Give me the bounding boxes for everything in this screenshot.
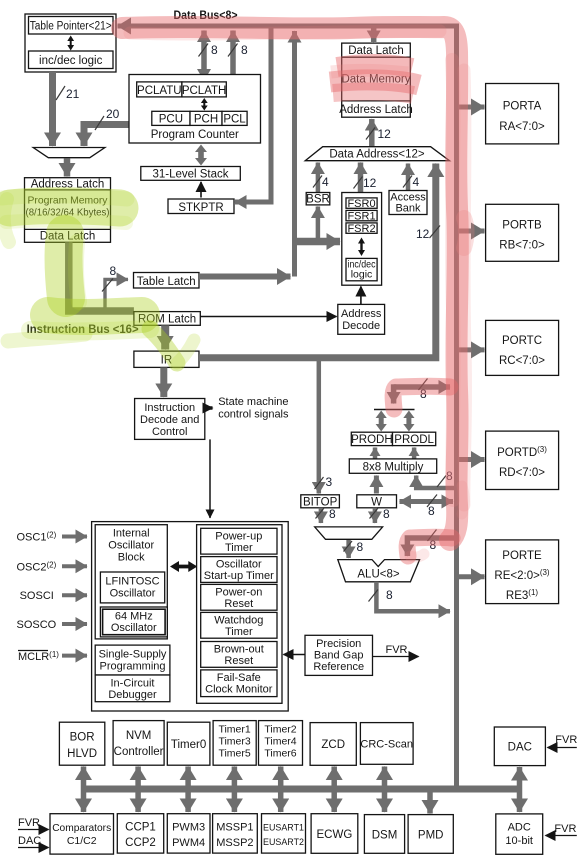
svg-text:8: 8 [383,507,390,521]
svg-text:12: 12 [378,127,392,141]
wire ROM latch to Address Decode [200,316,336,318]
svg-text:8: 8 [386,588,393,602]
svg-text:Start-up Timer: Start-up Timer [204,570,274,582]
svg-text:Oscillator: Oscillator [108,540,154,552]
svg-text:PCH: PCH [194,114,218,126]
svg-text:FSR0: FSR0 [347,198,375,210]
block EUSART1 EUSART2 [262,814,306,853]
svg-text:8: 8 [211,43,218,57]
block PORTA [486,84,559,144]
svg-text:Comparators: Comparators [52,822,111,834]
wire osc column to reset column double [170,561,197,572]
svg-text:PWM4: PWM4 [172,837,205,849]
svg-text:Decode: Decode [342,320,380,332]
wire NVM column double arrow [135,767,141,813]
svg-text:Control: Control [152,426,187,438]
highlight pink bus-to-ALU arm [407,537,452,556]
svg-text:BSR: BSR [306,194,330,206]
svg-text:SOSCI: SOSCI [20,590,54,602]
wire FSR to data address (12) [358,163,364,193]
wire multiply to PRODL [412,448,417,459]
svg-text:Timer0: Timer0 [171,739,206,751]
wire peripheral bus horizontal [84,786,520,793]
svg-text:EUSART2: EUSART2 [263,837,304,848]
svg-text:PCL: PCL [223,114,246,126]
wire ALU output to bus (8) [376,582,450,611]
value 8 slash right [228,44,238,57]
svg-text:Single-Supply: Single-Supply [99,649,167,661]
svg-text:Timer6: Timer6 [264,748,296,760]
wire 21 from table pointer to mux [49,72,56,146]
svg-text:Timer1: Timer1 [218,724,250,736]
svg-text:Instruction: Instruction [144,402,195,414]
svg-text:3: 3 [326,475,333,489]
wire Timer135 column double arrow [232,767,238,813]
highlight green program memory [10,206,120,208]
block Precision Band Gap Reference [305,635,373,675]
block PORTD [486,431,559,489]
svg-text:Oscillator: Oscillator [216,559,262,571]
block 31-Level Stack [141,167,241,181]
wire PRODL updown [403,411,414,432]
wire table ptr internal updown [67,36,74,51]
svg-text:CCP2: CCP2 [125,837,156,849]
svg-text:20: 20 [106,107,120,121]
svg-text:8: 8 [357,540,364,554]
block CRC-Scan [360,723,413,765]
wire data address to address latch (12) [369,119,375,147]
wire IDC down to oscillator block [209,439,211,518]
block Watchdog Timer [201,612,277,638]
wire table latch output to vertical bus [199,274,291,280]
block DAC [494,727,545,766]
block PMD [408,815,453,854]
wire pclath-pch updown [201,98,208,111]
block Brown-out Reset [201,642,277,668]
mux (address select) [33,148,105,158]
highlight pink data memory [330,64,419,95]
block LFINTOSC Oscillator [100,572,164,603]
svg-text:logic: logic [351,269,373,281]
svg-text:CRC-Scan: CRC-Scan [360,739,413,751]
svg-text:Program Counter: Program Counter [151,129,239,141]
svg-text:FVR: FVR [18,817,40,829]
svg-text:Oscillator: Oscillator [111,622,157,634]
wire multiply to PRODH [373,448,378,459]
svg-text:Block: Block [118,552,145,564]
block PORTC [486,320,559,375]
block Power-on Reset [201,584,277,610]
wire mux to address latch [64,159,71,177]
svg-text:Precision: Precision [316,638,361,650]
svg-text:Programming: Programming [99,661,165,673]
register BSR [306,193,330,205]
svg-text:8: 8 [329,507,336,521]
wire BITOP to mux (8) [319,508,324,523]
wire 20 from program counter to mux [84,125,129,147]
wire data bus horizontal + right vertical bus [118,26,457,789]
svg-text:FSR2: FSR2 [347,223,375,235]
svg-text:PORTA: PORTA [503,101,542,113]
svg-text:PCLATU: PCLATU [137,85,182,97]
svg-text:PRODL: PRODL [394,434,434,446]
svg-text:Table Pointer<21>: Table Pointer<21> [30,21,112,33]
svg-text:8x8 Multiply: 8x8 Multiply [363,461,424,473]
wire IR output to data address mux [199,164,436,358]
svg-text:MSSP1: MSSP1 [216,822,253,834]
block reset column outer [197,525,282,704]
wire bus to PORTA [459,105,485,110]
block 64 MHz Oscillator (double border) [100,607,167,637]
svg-text:ZCD: ZCD [321,739,345,751]
svg-text:MSSP2: MSSP2 [216,837,253,849]
block DSM [364,815,404,854]
wire IDC to state machine signals [205,406,213,410]
svg-text:NVM: NVM [126,730,152,742]
wire Access Bank to data address (4) [406,164,411,193]
svg-text:Power-on: Power-on [215,587,262,599]
svg-text:control signals: control signals [218,409,289,421]
svg-text:8: 8 [241,43,248,57]
wire 8 to table latch [105,279,128,309]
svg-text:Timer3: Timer3 [218,736,250,748]
wire BOR column double arrow [81,767,87,813]
wire PRODH updown [376,411,387,432]
block Power-up Timer [201,528,277,554]
wire bus to STKPTR [235,28,271,202]
svg-text:PRODH: PRODH [351,434,393,446]
svg-text:31-Level Stack: 31-Level Stack [152,169,228,181]
block inc/dec logic [29,51,114,69]
wire W to mux (8) [373,508,378,523]
svg-text:Timer4: Timer4 [264,736,296,748]
wire bus to PCLATU (8) [201,31,207,81]
wire bus down to Data Latch [371,28,377,42]
svg-text:PORTC: PORTC [502,335,542,347]
block ADC 10-bit [496,814,543,854]
alu ALU<8> [338,560,420,582]
highlight pink over data bus top [122,27,458,540]
svg-text:In-Circuit: In-Circuit [110,678,154,690]
svg-text:4: 4 [413,175,420,189]
wire bus to PORTB [459,229,485,234]
register IR [134,351,199,367]
svg-text:Oscillator: Oscillator [110,588,156,600]
wire FSR updown [358,238,365,257]
wire BSR bottom feed [316,207,321,242]
svg-text:Fail-Safe: Fail-Safe [217,672,261,684]
svg-text:FVR: FVR [555,734,577,746]
svg-text:PWM3: PWM3 [172,822,205,834]
svg-text:RC<7:0>: RC<7:0> [499,355,545,367]
wire band gap to brown-out reset [284,654,306,656]
wire PMD down arrow [427,792,433,814]
svg-text:ECWG: ECWG [317,829,353,841]
wire IR to instruction decode [160,367,167,397]
block PORTE [486,540,559,604]
wire bus to ALU (8) [407,538,456,556]
wire junction arm to FSR [295,238,341,246]
block Timer2 Timer4 Timer6 [259,721,303,766]
block CCP1 CCP2 [117,814,163,853]
block Single-Supply Programming [95,645,170,675]
block Timer0 [167,722,210,765]
wire bus to multiply (8) [416,476,456,489]
block Fail-Safe Clock Monitor [201,670,277,697]
svg-text:W: W [371,496,382,508]
block BOR HLVD [59,722,104,765]
block Timer1 Timer3 Timer5 [213,721,256,766]
block PORTB [486,204,559,261]
block Data Memory [342,43,411,117]
svg-text:Power-up: Power-up [215,531,262,543]
svg-text:State machine: State machine [218,396,288,408]
wire bus to PCL (8) [230,31,236,110]
wire instruction bus from data latch to ROM latch [69,242,134,311]
svg-text:RA<7:0>: RA<7:0> [499,121,545,133]
block oscillator/reset outer [92,522,289,711]
svg-text:Clock Monitor: Clock Monitor [205,684,273,696]
register Table Pointer [25,14,116,72]
wire DAC/ADC column double arrow [517,767,523,812]
wire ZCD column double arrow [331,767,337,813]
svg-text:STKPTR: STKPTR [178,202,223,214]
wire CRC column double arrow [382,767,388,813]
svg-text:Controller: Controller [114,746,164,758]
svg-text:Data Address<12>: Data Address<12> [329,149,425,161]
svg-text:8: 8 [110,264,117,278]
svg-text:DAC: DAC [18,835,41,847]
svg-text:Reset: Reset [224,598,253,610]
wire mux to ALU (8) [346,540,351,558]
wire Timer0 column double arrow [185,767,191,813]
highlight green over ROM latch to IR arrow [150,329,177,363]
register BITOP [301,495,340,508]
register Access Bank [389,191,427,215]
wire bus to PORTE [459,574,485,579]
HIGHLIGHTS [2,27,467,557]
svg-text:Timer: Timer [225,542,253,554]
svg-text:HLVD: HLVD [67,748,97,760]
block Oscillator Start-up Timer [201,557,277,583]
wire STKPTR to stack [200,182,202,198]
svg-text:Brown-out: Brown-out [214,644,264,656]
wire PROD head line [374,409,415,411]
block Instruction Decode and Control [135,399,205,440]
block Comparators C1/C2 [50,814,114,854]
highlight green instruction bus vertical [63,234,66,298]
wire bus to PORTC [459,347,485,352]
svg-text:Band Gap: Band Gap [314,650,364,662]
wire table latch to bus (up arrow) [292,31,297,277]
wire bus to PORTD [459,457,485,462]
register W [357,495,397,508]
svg-text:Timer: Timer [225,626,253,638]
svg-text:FVR: FVR [554,823,576,835]
svg-text:PCLATH: PCLATH [182,85,227,97]
svg-text:Reference: Reference [313,661,364,673]
block MSSP1 MSSP2 [213,814,258,853]
svg-text:PORTB: PORTB [502,220,542,232]
wire bus to PROD line (8) [394,384,450,390]
svg-text:Address: Address [341,308,382,320]
svg-text:10-bit: 10-bit [505,835,533,847]
svg-text:C1/C2: C1/C2 [67,835,97,847]
block ZCD [310,723,356,766]
block 8x8 Multiply [349,459,436,473]
svg-text:CCP1: CCP1 [125,822,156,834]
svg-text:SOSCO: SOSCO [17,619,57,631]
wire BSR to data address (4) [316,163,321,193]
svg-text:inc/dec logic: inc/dec logic [39,55,103,67]
svg-text:ALU<8>: ALU<8> [357,569,399,581]
svg-text:Timer2: Timer2 [264,724,296,736]
svg-text:21: 21 [66,87,80,101]
mux Data Address<12> [305,147,449,161]
svg-text:FVR: FVR [386,644,408,656]
svg-text:Internal: Internal [113,528,150,540]
block NVM Controller [113,721,164,766]
wire ROM latch to IR [161,325,169,349]
svg-text:8: 8 [428,504,435,518]
block ECWG [311,814,358,854]
register Table Latch [134,273,200,289]
svg-text:BOR: BOR [70,732,95,744]
svg-text:RD<7:0>: RD<7:0> [499,467,545,479]
wire W to bus double (8) [400,499,454,504]
wire W to multiply [374,476,379,494]
register PRODL [393,432,436,445]
wire 3 to BITOP [317,361,322,494]
svg-text:12: 12 [416,227,430,241]
block internal oscillator column [95,525,167,639]
block Program Counter [129,75,261,144]
svg-text:PORTE: PORTE [502,550,542,562]
svg-text:DSM: DSM [372,830,398,842]
register ROM Latch [134,312,200,326]
highlight pink bus-to-PROD arm [393,386,450,409]
svg-text:Table Latch: Table Latch [137,276,196,288]
svg-text:PMD: PMD [418,830,444,842]
svg-text:64 MHz: 64 MHz [115,611,153,623]
block In-Circuit Debugger [95,675,170,702]
svg-text:DAC: DAC [508,742,532,754]
register STKPTR [168,199,234,214]
block Program Memory [25,178,111,243]
mux ALU input select [315,527,383,539]
block PWM3 PWM4 [167,814,210,853]
register PRODH [351,432,392,445]
value 8 slash left [199,44,209,57]
svg-text:Address Latch: Address Latch [339,104,413,116]
block inc/dec logic (FSR) [346,258,377,280]
svg-text:12: 12 [363,176,377,190]
svg-text:Bank: Bank [395,203,421,215]
svg-text:ADC: ADC [508,822,531,834]
svg-text:Timer5: Timer5 [218,748,250,760]
wire PC to stack updown [195,145,207,166]
svg-text:RB<7:0>: RB<7:0> [499,240,545,252]
wire Timer246 column double arrow [278,767,284,813]
svg-text:Decode and: Decode and [140,414,199,426]
svg-text:Watchdog: Watchdog [214,615,263,627]
block Address Decode [338,304,385,334]
block FSR bank [342,193,382,286]
highlight green instruction bus horizontal + label [48,315,142,317]
svg-text:FSR1: FSR1 [347,210,375,222]
svg-text:PCU: PCU [159,114,183,126]
svg-text:EUSART1: EUSART1 [263,823,304,834]
wire Address Decode to FSR inc/dec [360,287,362,305]
svg-text:4: 4 [322,175,329,189]
svg-text:Reset: Reset [224,655,253,667]
svg-text:LFINTOSC: LFINTOSC [105,576,159,588]
svg-text:Debugger: Debugger [108,689,157,701]
